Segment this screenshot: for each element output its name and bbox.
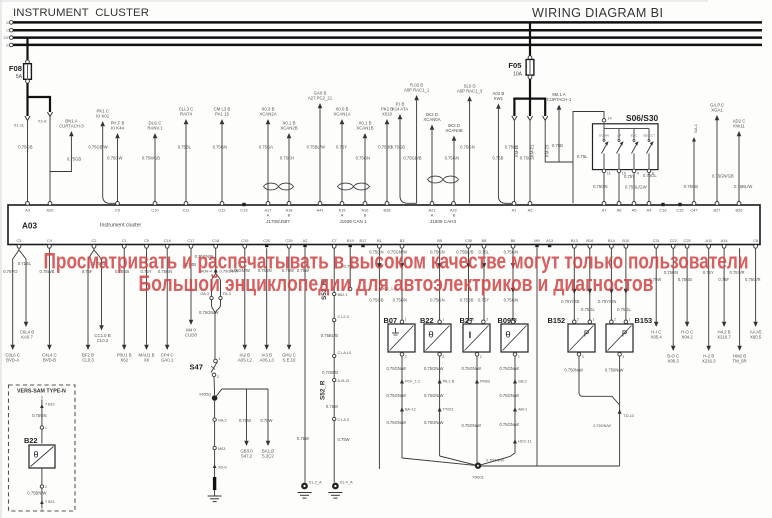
svg-text:0.75GN: 0.75GN [356,156,370,161]
svg-text:A2: A2 [528,207,533,212]
svg-text:C1: C1 [122,238,127,243]
svg-text:X1-11: X1-11 [14,123,25,128]
svg-text:0.75L: 0.75L [577,154,588,159]
A03 top pins [25,202,742,213]
svg-text:GA0.1: GA0.1 [161,358,174,363]
svg-text:GA.1: GA.1 [693,124,698,133]
svg-text:0.75GN: 0.75GN [593,184,607,189]
wire to pin A15 (CAN) [333,107,350,204]
svg-text:0.75GB: 0.75GB [67,157,81,162]
svg-text:0.7GB/B: 0.7GB/B [322,370,338,375]
wire C18 to S47 [195,248,239,359]
wire C5 [139,248,155,362]
svg-text:0.75GN/W: 0.75GN/W [386,393,406,398]
svg-text:0.75GN/GB: 0.75GN/GB [712,174,734,179]
svg-text:0.75GN/W: 0.75GN/W [386,366,406,371]
wire output X216.3 [702,248,716,363]
svg-text:BVD-A: BVD-A [6,358,19,363]
wire output X04.2 [678,248,693,339]
svg-text:0.75GN: 0.75GN [393,298,407,303]
svg-text:PA1 15: PA1 15 [215,112,229,117]
wire to pin A3 [18,121,32,203]
wire B3 to B07 [387,248,407,319]
svg-text:S06/S30: S06/S30 [626,113,658,123]
svg-text:VERS-SAM TYPE-N: VERS-SAM TYPE-N [17,388,66,394]
svg-text:BA-12: BA-12 [405,408,416,412]
ground S47 [208,496,222,502]
svg-text:11: 11 [607,172,611,176]
junction X655 [199,392,217,401]
wire B6 to B09B [504,248,518,319]
svg-text:TT021: TT021 [443,408,454,412]
wire CURTACH-1 [547,92,572,162]
svg-text:2: 2 [405,355,407,359]
wire B8 to B27.3 [478,248,490,319]
svg-text:2: 2 [217,375,219,379]
wire PK1 C [88,109,117,204]
svg-text:0.75GN/W: 0.75GN/W [199,310,219,315]
svg-text:0.71BL: 0.71BL [18,261,32,266]
svg-text:X05.4: X05.4 [651,335,663,340]
svg-text:B1: B1 [377,238,382,243]
component A03 instrument cluster [8,205,760,245]
wire to pin C9 [107,121,124,204]
svg-text:CL0.2: CL0.2 [97,338,109,343]
svg-text:0.75GN/W: 0.75GN/W [424,393,444,398]
wire C4 [39,248,56,362]
label S52_R lower [320,380,327,400]
svg-text:0.75Y: 0.75Y [336,145,347,150]
svg-text:F08: F08 [9,64,22,73]
svg-text:C4: C4 [47,238,53,243]
svg-text:0.75GB/W: 0.75GB/W [88,145,107,150]
svg-text:0.75Y: 0.75Y [624,174,635,179]
svg-text:0.75GN/W: 0.75GN/W [499,393,519,398]
wire C20 [258,248,275,362]
svg-text:KI K44: KI K44 [111,126,125,131]
svg-text:A18: A18 [286,207,293,212]
svg-text:B28: B28 [384,207,391,212]
watermark line 2 [139,271,654,296]
svg-text:J1939 CAH3: J1939 CAH3 [430,219,456,224]
wire KM-21 to pin A2 [520,121,534,203]
svg-text:C8: C8 [753,238,758,243]
svg-text:1: 1 [405,318,407,322]
bus line 15 [6,28,762,32]
svg-text:X1.2_A: X1.2_A [309,480,322,485]
wire XGA1 to B27 [710,103,734,204]
svg-text:P: P [584,330,589,339]
svg-text:0.75BL/B: 0.75BL/B [321,333,338,338]
sensor B27 [460,316,491,359]
svg-text:1: 1 [219,357,221,361]
svg-text:0.75BN/W: 0.75BN/W [27,491,46,496]
wire to pin A18 (CAN) [280,121,298,204]
wire S06 pin10 to A6 [619,173,635,204]
svg-text:14: 14 [608,117,612,121]
svg-text:A: A [431,213,434,218]
wire A0P RAC1_1 [403,83,430,204]
twisted pair symbol J1939 CAN1 [338,183,370,190]
svg-text:2: 2 [614,318,616,322]
svg-text:CL0.3: CL0.3 [82,358,94,363]
ground stud X1.2_A [298,480,322,499]
svg-text:A11: A11 [705,238,712,243]
svg-text:X0: X0 [144,358,150,363]
svg-text:KW1: KW1 [494,96,504,101]
svg-text:B: B [364,213,367,218]
svg-text:0.75GA: 0.75GA [259,145,273,150]
svg-text:0.75W: 0.75W [239,418,251,423]
svg-text:J1939 CAN 1: J1939 CAN 1 [339,219,367,224]
svg-text:C.LA.0: C.LA.0 [338,418,350,422]
svg-text:A: A [267,213,270,218]
svg-text:5A: 5A [16,74,23,80]
svg-text:S.E.10: S.E.10 [283,358,297,363]
svg-text:S47.2: S47.2 [241,454,253,459]
svg-text:Большой энциклопедии для автоэ: Большой энциклопедии для автоэлектриков … [139,271,654,296]
svg-text:AM-1: AM-1 [518,408,527,412]
svg-text:0.75GB: 0.75GB [369,298,383,303]
svg-text:0.75GN: 0.75GN [460,145,474,150]
wire C29 [282,248,296,362]
svg-text:0.75GB: 0.75GB [391,145,405,150]
svg-text:S47: S47 [189,363,203,372]
svg-text:C30: C30 [465,238,473,243]
svg-text:0.75GN/W: 0.75GN/W [424,366,444,371]
svg-text:RAI74: RAI74 [180,112,193,117]
wire B22.2 chain [424,356,478,466]
svg-text:1: 1 [516,318,518,322]
wire B07.2 chain [386,356,478,466]
svg-text:C16: C16 [164,238,171,243]
wire to pin C10 [142,121,163,204]
svg-text:A03: A03 [22,222,37,231]
wire B5 to B22 [430,248,444,319]
svg-text:0.75GN/W: 0.75GN/W [424,420,444,425]
svg-text:0.75GL: 0.75GL [617,307,631,312]
svg-text:B07: B07 [384,316,398,325]
svg-text:A21: A21 [429,207,436,212]
svg-text:A17: A17 [265,207,272,212]
svg-text:0.75BB: 0.75BB [460,298,474,303]
wire B09B.2 chain [478,356,531,466]
svg-text:1: 1 [472,318,474,322]
bus line 15R [3,36,762,40]
svg-text:A15: A15 [339,207,346,212]
svg-text:BVD-B: BVD-B [43,358,56,363]
twisted pair symbol J1939 CAN3 [428,176,459,183]
svg-text:TD-13: TD-13 [624,414,635,418]
svg-text:C2: C2 [92,238,97,243]
svg-text:B153: B153 [635,316,653,325]
svg-text:B6: B6 [511,238,516,243]
svg-text:2: 2 [442,355,444,359]
wire to pin A17 (CAN) [259,107,277,204]
svg-text:0: 0 [41,395,43,399]
wire to pressure sensor [617,248,631,320]
svg-text:0.75B: 0.75B [492,156,503,161]
wire B1 long [369,248,396,470]
wire M9 long [536,248,538,467]
wire to pressure sensor [581,248,595,320]
svg-text:C47: C47 [690,207,697,212]
wire output X216.7 [717,248,731,339]
svg-text:CURTACH-1: CURTACH-1 [547,97,572,102]
svg-text:C13: C13 [240,207,247,212]
svg-text:θ: θ [428,330,433,341]
svg-text:30: 30 [6,21,10,25]
svg-text:0.75GN/W: 0.75GN/W [461,366,481,371]
svg-text:B8: B8 [482,238,487,243]
svg-text:PA.1 B: PA.1 B [443,380,455,384]
svg-text:B27: B27 [714,207,721,212]
wire to pin A16 (CAN) [356,121,374,204]
wire to pressure sensor [598,248,616,320]
sensor B22 [420,316,451,359]
svg-text:C9: C9 [115,207,120,212]
svg-text:M9: M9 [534,238,539,243]
svg-text:ESC: ESC [631,134,638,138]
svg-text:3: 3 [486,318,488,322]
svg-text:XCAN1B: XCAN1B [356,126,373,131]
wire B19 [344,248,355,291]
svg-text:A3: A3 [25,207,30,212]
svg-text:C3: C3 [17,238,22,243]
svg-text:0.75GN: 0.75GN [213,145,227,150]
svg-text:KA0 7: KA0 7 [21,335,33,340]
svg-text:X04.2: X04.2 [681,335,693,340]
svg-text:X010: X010 [382,112,393,117]
svg-text:C16: C16 [659,207,666,212]
svg-text:A27.PC2_21: A27.PC2_21 [308,96,333,101]
wire C16 [158,248,174,362]
wire output X60.5 [745,248,762,339]
wire C2 split [82,248,111,362]
option box VERS-SAM TYPE-N [9,385,76,511]
svg-text:0.75GN/W: 0.75GN/W [486,459,504,463]
svg-text:X655(): X655() [199,392,212,397]
svg-text:0.75W: 0.75W [338,437,350,442]
svg-text:C18: C18 [212,238,219,243]
svg-text:0.75GL: 0.75GL [643,173,657,178]
svg-text:XCAN0B: XCAN0B [445,128,462,133]
svg-text:XCAN2A: XCAN2A [259,112,276,117]
svg-text:0.75GA: 0.75GA [520,156,534,161]
wire to pin C12 [213,107,231,204]
wire GA.1 to C47 [684,124,698,203]
svg-text:0.75VO: 0.75VO [3,269,18,274]
svg-text:C20: C20 [263,238,271,243]
svg-text:C22: C22 [670,238,677,243]
wire A0P RAC1_3 [457,84,483,204]
svg-text:PCF_1.2: PCF_1.2 [405,380,420,384]
bus line 30 [6,21,762,25]
sensor B22 (VERS-SAM) [24,395,55,512]
svg-text:2: 2 [45,485,47,489]
svg-text:S52_R: S52_R [320,380,327,400]
sensor B07 [384,316,416,359]
svg-text:A41: A41 [317,207,324,212]
wire F05 distribution [512,79,550,157]
fuse F08 [9,38,31,84]
svg-text:X60.5: X60.5 [750,335,762,340]
svg-text:10A: 10A [513,72,523,78]
ground stud X1.4_A [328,480,353,499]
svg-text:C.LA.L0: C.LA.L0 [338,351,352,355]
svg-text:B: B [453,213,456,218]
title WIRING DIAGRAM BI [532,6,663,20]
svg-text:C25: C25 [684,238,691,243]
svg-text:CURTACH-3: CURTACH-3 [59,124,84,129]
svg-text:C19: C19 [241,238,248,243]
svg-text:B152: B152 [548,316,566,325]
wire to pin C11 [178,107,194,204]
svg-text:T B21: T B21 [45,500,55,504]
svg-text:2: 2 [518,355,520,359]
svg-text:0.75GN/W: 0.75GN/W [461,423,481,428]
svg-text:B19: B19 [347,238,354,243]
svg-text:A16: A16 [362,207,369,212]
svg-text:X62: X62 [120,358,128,363]
svg-text:A0S.L2: A0S.L2 [238,358,253,363]
wire to pin A41 [307,91,333,204]
svg-text:C5: C5 [144,238,149,243]
svg-text:0.75W: 0.75W [297,436,309,441]
svg-text:2: 2 [577,318,579,322]
svg-text:TM_5R: TM_5R [733,359,747,364]
svg-text:P: P [622,330,627,339]
wire to pin A22 (CAN) [445,123,463,203]
svg-text:0.75BL: 0.75BL [178,145,192,150]
svg-text:WIRING DIAGRAM BI: WIRING DIAGRAM BI [532,6,663,20]
svg-text:3: 3 [622,355,624,359]
svg-text:0.750N/W: 0.750N/W [605,368,624,373]
svg-text:0.75W: 0.75W [326,404,338,409]
svg-text:B14: B14 [608,238,616,243]
svg-text:0.75GB: 0.75GB [18,145,32,150]
svg-text:B10: B10 [622,238,630,243]
sensor B152 [548,316,596,359]
svg-text:DOWN: DOWN [599,134,609,138]
svg-text:HCC-11: HCC-11 [518,440,531,444]
svg-text:T B19: T B19 [45,403,55,407]
svg-text:UP: UP [617,134,621,138]
svg-text:INSTRUMENT CLUSTER: INSTRUMENT CLUSTER [13,7,149,19]
svg-text:0.75Y/GB: 0.75Y/GB [561,299,579,304]
svg-text:KW11: KW11 [733,124,745,129]
svg-text:X216.3: X216.3 [702,359,716,364]
svg-text:0.75BL/GW: 0.75BL/GW [625,185,647,190]
svg-text:CUD0: CUD0 [185,333,197,338]
svg-text:0.75GN: 0.75GN [430,298,444,303]
svg-text:0.75BL/W: 0.75BL/W [307,145,325,150]
wire X655 to ground [213,401,227,496]
svg-text:0.750N/W: 0.750N/W [564,368,583,373]
switch unit S06/S30 [593,113,659,176]
svg-text:K14 ATA: K14 ATA [392,107,408,112]
svg-text:0.75GB: 0.75GB [678,277,692,282]
svg-text:I: I [469,330,472,341]
svg-text:0.75Y: 0.75Y [478,298,489,303]
svg-text:B16: B16 [586,238,593,243]
wire KM-23 [545,121,573,162]
svg-text:M03: M03 [218,447,225,451]
svg-text:KI K01: KI K01 [96,114,110,119]
twisted pair symbol J1708 [264,183,294,190]
wire KW11 to B26 [733,119,753,204]
svg-text:B3: B3 [400,238,405,243]
wire P.I B [391,102,417,204]
svg-text:0.75W: 0.75W [260,418,272,423]
svg-text:θ: θ [33,450,38,460]
svg-text:θ: θ [505,330,510,341]
svg-text:X9001: X9001 [472,475,484,480]
wire to S06/S30 pin 14 [573,112,604,204]
svg-text:0.75GB: 0.75GB [684,184,698,189]
svg-text:0.75WGB: 0.75WGB [142,156,160,161]
svg-text:A0P RAC1_1: A0P RAC1_1 [404,88,430,93]
svg-text:C10: C10 [151,207,159,212]
wire output X05.4 [649,248,662,339]
svg-text:A.0L.B: A.0L.B [338,379,350,383]
wire C17 [185,248,197,337]
wire S06 pin6 to A4 [643,173,657,204]
svg-text:A14: A14 [721,238,729,243]
svg-text:0: 0 [41,508,43,512]
watermark line 1 [44,249,749,274]
svg-text:1: 1 [592,318,594,322]
svg-text:0.75F: 0.75F [718,277,729,282]
svg-text:15: 15 [6,29,10,33]
sensor B153 [606,316,652,359]
svg-text:A1: A1 [512,207,517,212]
svg-text:GA.2: GA.2 [218,419,227,423]
svg-text:0.75GN/W: 0.75GN/W [386,420,406,425]
wire C19 [230,248,252,362]
bus line 31 [6,43,762,47]
svg-text:0.75GB/B: 0.75GB/B [403,156,421,161]
svg-text:31: 31 [6,43,10,47]
svg-text:B22: B22 [24,436,38,445]
svg-text:0.75BL/W: 0.75BL/W [734,184,752,189]
svg-text:A13: A13 [546,238,553,243]
svg-text:X06.3: X06.3 [668,359,680,364]
svg-text:0.75GN/W: 0.75GN/W [593,424,611,428]
sensor B09B [498,316,529,359]
svg-text:XCAN0A: XCAN0A [423,117,440,122]
svg-text:B5: B5 [437,238,442,243]
svg-text:B17: B17 [360,238,367,243]
svg-text:3: 3 [582,355,584,359]
svg-text:1: 1 [45,426,47,430]
svg-text:B22: B22 [420,316,434,325]
svg-text:0.75GN/W: 0.75GN/W [499,422,519,427]
svg-text:A6: A6 [617,207,622,212]
wire B27.2 chain [461,356,489,466]
svg-text:C7: C7 [332,238,337,243]
junction X900 [472,463,484,480]
wire F08 to X1-11/X1-8 [14,83,53,128]
svg-text:B13: B13 [571,238,578,243]
wire to pin B28 [378,107,393,204]
svg-text:0.75GN/W: 0.75GN/W [499,366,519,371]
switch S47 [189,357,220,395]
svg-text:C15: C15 [676,207,683,212]
svg-text:0.75GN: 0.75GN [445,156,459,161]
svg-text:Просматривать и распечатывать: Просматривать и распечатывать в высоком … [44,249,749,274]
svg-text:A0S.L3: A0S.L3 [260,358,275,363]
